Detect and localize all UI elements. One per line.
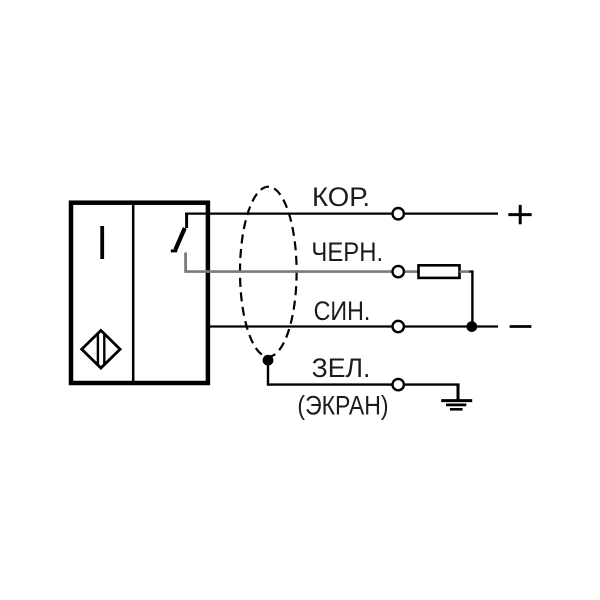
- svg-text:КОР.: КОР.: [312, 182, 370, 212]
- svg-text:СИН.: СИН.: [314, 296, 371, 326]
- svg-text:ЗЕЛ.: ЗЕЛ.: [312, 353, 371, 383]
- svg-text:(ЭКРАН): (ЭКРАН): [297, 390, 388, 420]
- svg-text:ЧЕРН.: ЧЕРН.: [311, 237, 383, 267]
